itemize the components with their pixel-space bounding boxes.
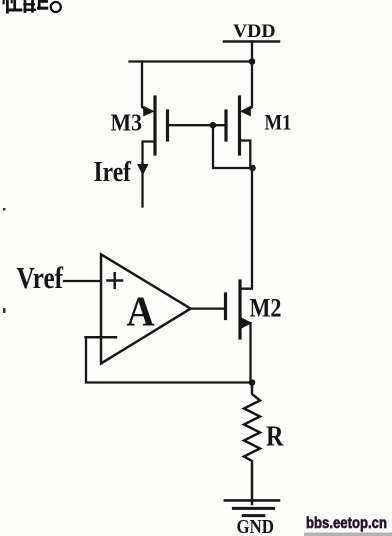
wire gate M3 to gate M1 xyxy=(168,124,227,126)
M2 source arrowhead xyxy=(242,318,253,329)
transistor M1 gate bar xyxy=(224,111,227,140)
wire M3 drain xyxy=(143,142,156,207)
M3 source arrowhead xyxy=(143,106,154,117)
M1 source arrowhead xyxy=(240,106,251,117)
op-amp plus input sign xyxy=(108,273,123,288)
wire M2 source xyxy=(240,323,251,383)
svg-text:Iref: Iref xyxy=(94,157,132,188)
svg-text:M2: M2 xyxy=(250,293,282,323)
wire M1 gate-drain loop xyxy=(213,125,254,168)
stray scan speck upper xyxy=(3,208,6,211)
VDD supply bar xyxy=(224,40,279,43)
ground middle line xyxy=(233,507,273,510)
Iref arrowhead xyxy=(137,164,149,176)
svg-text:M1: M1 xyxy=(265,110,292,135)
ground bottom line xyxy=(243,514,264,517)
transistor M2 gate bar xyxy=(224,294,227,319)
svg-text:A: A xyxy=(127,290,156,336)
wire feedback xyxy=(86,337,252,382)
wire VDD bar to top node xyxy=(251,42,253,62)
ground top line xyxy=(225,499,279,502)
node drain junction xyxy=(249,165,256,172)
transistor M3 channel xyxy=(153,97,156,154)
wire M1 source xyxy=(247,62,252,112)
clipped Chinese caption "性能。" xyxy=(4,0,61,12)
op-amp minus input line xyxy=(86,336,117,339)
wire M3 source xyxy=(142,62,147,112)
op-amp U1 triangle xyxy=(101,254,191,363)
svg-text:bbs.eetop.cn: bbs.eetop.cn xyxy=(306,515,387,532)
watermark reflection smear xyxy=(304,533,392,536)
wire top horizontal rail xyxy=(130,60,254,62)
resistor R xyxy=(244,383,260,505)
wire rail M1 drain to M2 drain xyxy=(240,168,252,289)
wire Vref input xyxy=(64,280,101,282)
node feedback junction xyxy=(249,379,256,386)
transistor M2 channel xyxy=(238,281,241,338)
transistor M1 channel xyxy=(238,97,241,154)
node top junction xyxy=(249,58,256,65)
svg-text:M3: M3 xyxy=(111,111,143,137)
transistor M3 gate bar xyxy=(166,111,169,140)
svg-text:Vref: Vref xyxy=(17,260,64,295)
svg-text:VDD: VDD xyxy=(233,21,276,42)
stray scan speck lower xyxy=(3,308,6,313)
wire op-amp output to M2 gate xyxy=(190,307,226,309)
svg-text:R: R xyxy=(266,421,284,453)
node gate junction xyxy=(210,122,217,129)
svg-text:GND: GND xyxy=(237,516,275,536)
wire M1 drain xyxy=(240,141,251,169)
